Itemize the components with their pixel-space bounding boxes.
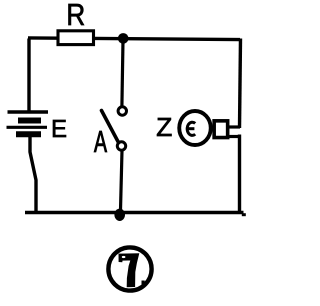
lamp Z bottom lead to right rail [229, 135, 240, 138]
battery E plate long positive upper [8, 110, 49, 113]
ink speck beside digit [142, 281, 145, 285]
switch A upper contact [118, 107, 126, 115]
figure number digit 7 [119, 253, 140, 287]
label E [53, 120, 66, 137]
lamp Z emf symbol epsilon curve [187, 122, 195, 135]
lamp Z emf symbol epsilon middle bar [186, 127, 194, 130]
wire right side lower (lamp to bottom rail) [238, 135, 241, 213]
node top junction [118, 33, 129, 44]
label Z [157, 118, 172, 136]
battery E plate long positive lower [7, 126, 48, 129]
lamp Z base square [214, 121, 228, 138]
wire middle branch lower (switch to bottom junction) [121, 151, 123, 211]
label R [69, 4, 85, 25]
wire middle branch upper (top junction to switch) [122, 40, 123, 107]
lamp Z top lead to right rail [229, 125, 240, 128]
resistor R body [58, 31, 94, 45]
wire left side lower (battery to bottom rail) [30, 134, 36, 212]
switch A lower contact [117, 142, 125, 150]
lamp Z bulb envelope [179, 111, 211, 145]
wire bottom rail right end tail [242, 213, 246, 216]
label A [94, 131, 107, 152]
figure number circle [108, 247, 151, 290]
wire right side upper (top rail to lamp) [240, 39, 241, 129]
battery E plate short negative upper [18, 118, 41, 124]
wire left side upper (top rail to battery) [27, 39, 30, 112]
battery E plate short negative lower [16, 131, 41, 137]
wire top rail [28, 38, 240, 40]
switch A lever arm (open) [102, 111, 119, 143]
node bottom junction [114, 209, 125, 221]
wire bottom rail [25, 211, 244, 215]
